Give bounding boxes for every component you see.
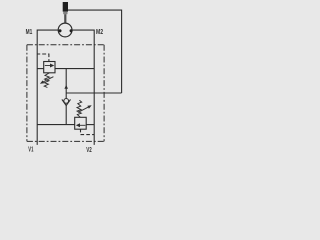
RV1 internal arrow — [45, 65, 50, 67]
wire: RV2 outlet to V2 column — [86, 124, 94, 126]
RV1 adjustment arrow — [43, 77, 53, 82]
svg-text:V2: V2 — [86, 145, 92, 154]
motor U1 circle — [58, 23, 72, 37]
enclosure dashed boundary bottom — [27, 140, 104, 142]
RV2 adjustment arrow — [78, 107, 88, 112]
wire: loop bottom horizontal — [66, 92, 121, 94]
shaft collar — [63, 12, 67, 15]
wire: check valve column upper — [65, 69, 67, 100]
wire: motor right port to M2/V2 column — [72, 30, 94, 145]
handle (shaft end) — [63, 2, 68, 12]
enclosure dashed boundary top — [27, 44, 104, 46]
RV2 internal arrow — [80, 124, 85, 126]
RV1 spring — [44, 73, 49, 88]
wire: check valve column lower — [65, 106, 67, 125]
shaft line — [64, 14, 66, 23]
enclosure dashed boundary right — [103, 45, 105, 142]
wire: tap from handle to right loop — [68, 10, 122, 93]
wire: V1 line to relief valve RV1 inlet — [37, 68, 44, 70]
svg-text:M2: M2 — [96, 27, 103, 36]
wire: motor left port to M1/V1 column — [37, 30, 58, 145]
port dot left — [58, 29, 61, 32]
relief valve RV2 body — [75, 117, 87, 129]
svg-text:V1: V1 — [28, 145, 33, 154]
RV1 pilot line (dashed) — [37, 54, 49, 62]
enclosure dashed boundary left — [26, 45, 28, 142]
port dot right — [70, 29, 73, 32]
RV2 pilot line (dashed) — [81, 129, 95, 134]
relief valve RV1 body — [44, 62, 55, 73]
svg-text:M1: M1 — [26, 27, 33, 36]
check valve CV1 ball — [64, 99, 69, 104]
check valve flow arrow (up) — [64, 85, 68, 89]
wire: RV1 outlet to V2 column — [55, 68, 94, 70]
wire: V1 bottom rail to relief valve RV2 — [37, 124, 74, 126]
RV2 spring — [77, 100, 82, 117]
check valve CV1 seat — [62, 99, 71, 105]
